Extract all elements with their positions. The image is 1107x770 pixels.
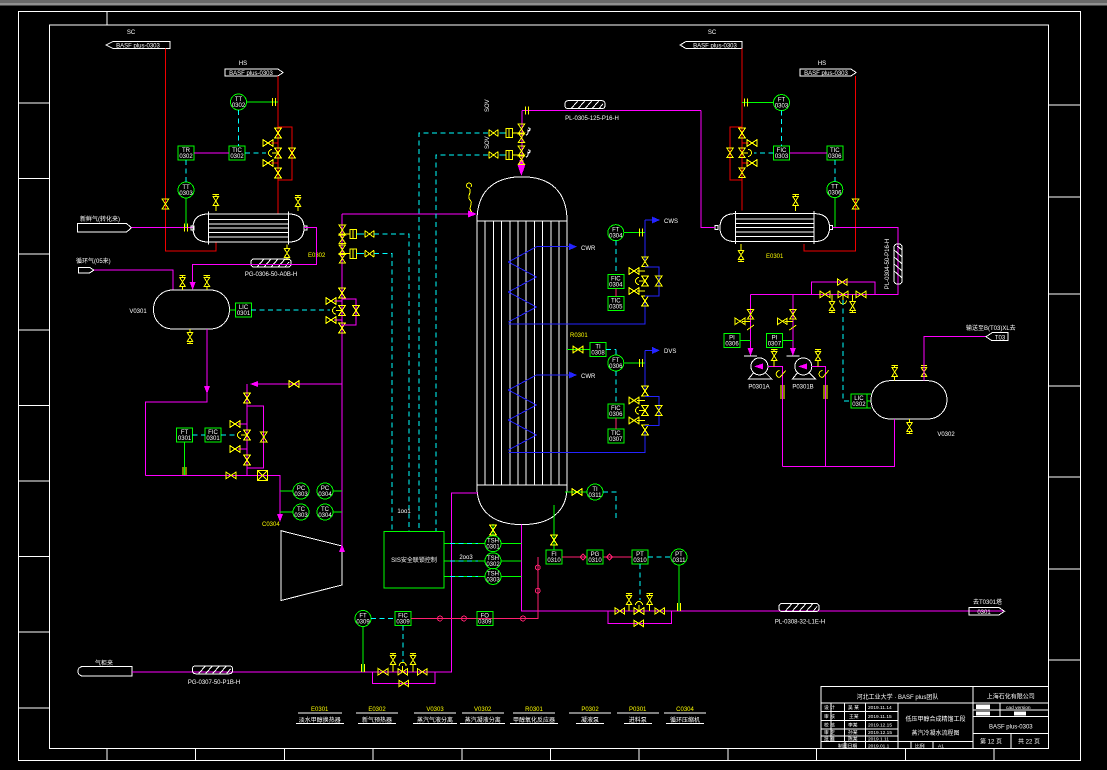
svg-text:T03: T03 bbox=[995, 336, 1006, 342]
product valve station bbox=[608, 594, 672, 627]
TSH sensor wires bbox=[444, 544, 521, 577]
svg-text:BASF plus-0303: BASF plus-0303 bbox=[116, 44, 160, 50]
legend E0302 bbox=[356, 707, 398, 724]
signal wire TIC0302 to valve bbox=[245, 152, 266, 154]
svg-text:V0303: V0303 bbox=[426, 707, 444, 713]
TSH0301 top tap valve bbox=[490, 524, 496, 536]
temperature box TI0308 bbox=[567, 343, 606, 357]
red steam line right SC bbox=[741, 49, 743, 211]
svg-text:0301: 0301 bbox=[977, 610, 991, 616]
signal wire FIC0303 to valve bbox=[754, 152, 774, 154]
reactor bottom head bbox=[477, 487, 567, 525]
flow transmitter FT0309 bbox=[355, 611, 371, 627]
pipe class tag PG-0307 bbox=[188, 666, 240, 686]
gauge box PG0310 bbox=[587, 550, 603, 564]
svg-text:E0301: E0301 bbox=[311, 707, 329, 713]
pipe class tag PL-0305 bbox=[565, 101, 619, 122]
revision rows text bbox=[824, 704, 944, 749]
svg-text:低压甲醇合成精馏工段: 低压甲醇合成精馏工段 bbox=[905, 715, 965, 723]
reactor top head bbox=[477, 177, 567, 221]
svg-text:V0301: V0301 bbox=[129, 309, 147, 315]
controller box TIC0306r bbox=[827, 146, 843, 160]
legend R0301 bbox=[510, 707, 558, 724]
svg-text:陈某: 陈某 bbox=[848, 736, 858, 743]
svg-text:HS: HS bbox=[239, 61, 247, 67]
svg-text:0303: 0303 bbox=[294, 492, 308, 498]
relief valve P0301B bbox=[815, 350, 821, 367]
signal line TT0302 to steam line bbox=[247, 101, 279, 103]
signal flag SC right bbox=[680, 30, 742, 50]
controller TIC0307 bbox=[608, 429, 624, 443]
svg-text:DVS: DVS bbox=[664, 349, 676, 355]
control valve station on HS steam line bbox=[263, 127, 295, 180]
signal wires upper cooling bbox=[615, 241, 617, 275]
signal dash PT0310 to valve bbox=[639, 564, 641, 600]
lower coil return pipe bbox=[508, 430, 645, 452]
title block frame bbox=[821, 686, 1048, 748]
svg-text:校 核: 校 核 bbox=[824, 722, 835, 729]
svg-text:2019.12.15: 2019.12.15 bbox=[868, 723, 892, 729]
transmitter TT0302 bbox=[231, 94, 247, 110]
valve on right HS line bbox=[852, 199, 858, 209]
svg-text:0304: 0304 bbox=[318, 492, 332, 498]
svg-text:0301: 0301 bbox=[486, 545, 500, 551]
signal dashes station B to SIS bbox=[374, 254, 392, 532]
svg-text:蒸汽气液分离: 蒸汽气液分离 bbox=[417, 716, 453, 724]
signal wire FIC to letdown valve bbox=[221, 434, 238, 436]
pump P0301B bbox=[786, 356, 815, 391]
svg-text:0303: 0303 bbox=[294, 513, 308, 519]
sensor line FT0301 bbox=[184, 442, 186, 475]
sensor line PT0311 bbox=[678, 566, 680, 612]
wire FIC-TIC right bbox=[790, 152, 827, 154]
svg-text:PL-0308-32-L1E-H: PL-0308-32-L1E-H bbox=[775, 620, 825, 626]
svg-text:审 核: 审 核 bbox=[824, 713, 835, 720]
svg-text:新气预热器: 新气预热器 bbox=[362, 716, 392, 724]
svg-text:A1: A1 bbox=[938, 743, 944, 749]
gauge PI0307 bbox=[766, 334, 782, 348]
svg-text:BASF plus-0303: BASF plus-0303 bbox=[693, 44, 737, 50]
controller FIC0309 bbox=[395, 612, 411, 626]
flow transmitter FT0306 bbox=[608, 355, 624, 371]
arrow compressor discharge bbox=[339, 544, 345, 552]
controller box TIC0302 bbox=[229, 146, 245, 160]
DVS supply lower bbox=[645, 350, 652, 391]
svg-text:1oo1: 1oo1 bbox=[397, 509, 411, 515]
svg-text:甲醇氧化反应器: 甲醇氧化反应器 bbox=[513, 716, 555, 724]
svg-text:批 准: 批 准 bbox=[824, 736, 835, 743]
svg-text:P0302: P0302 bbox=[581, 707, 599, 713]
frame zone ticks top bbox=[106, 12, 108, 26]
TSH sensors bbox=[485, 536, 501, 552]
svg-text:0310: 0310 bbox=[588, 558, 602, 564]
sensor line TT0303 to feed pipe bbox=[185, 198, 187, 228]
vent valves on V0302 bbox=[892, 366, 898, 381]
feed flag 新鲜气(转化来) bbox=[78, 215, 132, 232]
recycle flag 循环气(05来) bbox=[76, 257, 111, 273]
svg-text:0304: 0304 bbox=[609, 234, 623, 240]
svg-text:0306: 0306 bbox=[828, 154, 842, 160]
svg-text:0306: 0306 bbox=[609, 364, 623, 370]
svg-text:比例: 比例 bbox=[915, 742, 925, 749]
drain valve E0302 bbox=[284, 245, 290, 260]
gauge stub wires bbox=[280, 491, 342, 512]
svg-text:E0302: E0302 bbox=[308, 253, 326, 259]
svg-text:进料泵: 进料泵 bbox=[629, 716, 647, 724]
shutoff station A on riser bbox=[339, 225, 374, 243]
svg-text:SC: SC bbox=[708, 30, 717, 36]
drain valve V0301 bbox=[187, 329, 193, 344]
bottom temperature point TI0311 bbox=[565, 484, 603, 500]
svg-text:0302: 0302 bbox=[232, 103, 246, 109]
svg-text:2019.1.11: 2019.1.11 bbox=[868, 737, 889, 743]
feed pipe to E0302 bbox=[132, 227, 194, 229]
svg-text:P0301A: P0301A bbox=[748, 385, 769, 391]
frame zone ticks right bbox=[1049, 105, 1081, 660]
level controller LIC0302 bbox=[851, 394, 867, 408]
heat exchanger E0302 bbox=[191, 212, 307, 245]
compressor recycle main riser bbox=[341, 214, 343, 546]
svg-text:E0302: E0302 bbox=[368, 707, 386, 713]
svg-text:审 定: 审 定 bbox=[824, 729, 835, 736]
valve on crossover bbox=[289, 381, 299, 387]
sensor line FT0309 bbox=[362, 627, 364, 672]
svg-text:C0304: C0304 bbox=[262, 522, 280, 528]
svg-text:0306: 0306 bbox=[725, 342, 739, 348]
svg-text:气柜来: 气柜来 bbox=[95, 659, 113, 667]
svg-text:0306: 0306 bbox=[828, 191, 842, 197]
svg-text:0309: 0309 bbox=[356, 620, 370, 626]
svg-text:0301: 0301 bbox=[206, 436, 220, 442]
frame zone ticks bottom bbox=[107, 749, 994, 761]
signal flag HS left bbox=[225, 61, 283, 77]
relief valve P0301A bbox=[771, 350, 777, 367]
reactor shell bbox=[477, 221, 567, 487]
orifice on suction header bbox=[258, 470, 268, 480]
svg-text:CWR: CWR bbox=[581, 246, 596, 252]
gas feed pipe bbox=[132, 493, 478, 672]
pump P0301A suction bbox=[750, 294, 752, 352]
svg-text:新鲜气(转化来): 新鲜气(转化来) bbox=[80, 215, 120, 223]
legend E0301 bbox=[296, 707, 344, 724]
svg-text:2019.11.14: 2019.11.14 bbox=[868, 705, 892, 711]
svg-text:0307: 0307 bbox=[609, 437, 623, 443]
svg-text:0310: 0310 bbox=[547, 558, 561, 564]
arrow into V0301 bbox=[190, 282, 196, 290]
svg-text:BASF plus-0303: BASF plus-0303 bbox=[989, 725, 1033, 731]
sensor line FT0306 bbox=[624, 362, 645, 364]
svg-text:淡水甲醇换热器: 淡水甲醇换热器 bbox=[299, 716, 341, 724]
svg-text:E0301: E0301 bbox=[766, 254, 784, 260]
svg-text:0309: 0309 bbox=[478, 620, 492, 626]
signal dash station1 to SIS bbox=[419, 133, 488, 532]
V0301 bottom outlet line bbox=[145, 329, 207, 475]
reactor bottom outlet line bbox=[521, 525, 1003, 611]
legend P0301 bbox=[617, 707, 659, 724]
crossover pipe to letdown leg bbox=[251, 383, 342, 385]
cooling water valve station lower bbox=[629, 386, 662, 435]
pressure gauges PI row bbox=[293, 483, 309, 499]
gauge PI0306 bbox=[724, 334, 740, 348]
signal wire FT-FIC0309 bbox=[371, 618, 395, 620]
suction header to compressor bbox=[145, 475, 280, 520]
signal flag SC left bbox=[106, 30, 170, 50]
svg-text:0301: 0301 bbox=[178, 436, 192, 442]
vent valve E0301 bbox=[792, 195, 798, 212]
solenoid shutoff station 1 bbox=[489, 124, 530, 142]
svg-text:0306: 0306 bbox=[609, 412, 623, 418]
signal dash TI0308 bbox=[606, 350, 616, 356]
svg-text:PL-0304-50-P16-H: PL-0304-50-P16-H bbox=[885, 239, 891, 289]
svg-text:0310: 0310 bbox=[633, 558, 647, 564]
feed arrow into reactor top head bbox=[342, 213, 468, 215]
svg-text:0311: 0311 bbox=[589, 493, 603, 499]
letdown leg bbox=[246, 384, 248, 475]
signal wire TR-TIC bbox=[194, 152, 229, 154]
recycle pipe into V0301 bbox=[94, 270, 173, 290]
svg-text:BASF plus-0303: BASF plus-0303 bbox=[804, 71, 848, 77]
svg-text:制图日期: 制图日期 bbox=[838, 742, 857, 749]
svg-text:HS: HS bbox=[818, 61, 826, 67]
vessel V0302 bbox=[871, 381, 955, 438]
svg-text:上海石化有限公司: 上海石化有限公司 bbox=[987, 693, 1035, 701]
legend V0303 bbox=[413, 707, 457, 724]
svg-text:0304: 0304 bbox=[609, 283, 623, 289]
transmitter TT0306 bbox=[827, 182, 843, 198]
svg-text:循环气(05来): 循环气(05来) bbox=[76, 257, 111, 265]
flow transmitter FT0301 box bbox=[177, 428, 193, 442]
svg-text:0302: 0302 bbox=[230, 154, 244, 160]
signal dash to PT bubble bbox=[648, 556, 671, 558]
recorder box TR0302 bbox=[178, 146, 194, 160]
svg-text:0308: 0308 bbox=[591, 351, 605, 357]
letdown valve station on riser bbox=[326, 288, 359, 333]
svg-text:SOV: SOV bbox=[485, 99, 491, 112]
svg-text:王某: 王某 bbox=[849, 714, 859, 720]
signal wire TT0302-TIC0302 bbox=[238, 110, 240, 146]
arrow into compressor bbox=[277, 514, 283, 522]
svg-text:0311: 0311 bbox=[673, 558, 687, 564]
level controller LIC0301 bbox=[230, 303, 252, 317]
svg-text:CWS: CWS bbox=[664, 219, 678, 225]
sensor line FT0303 bbox=[742, 102, 774, 104]
svg-text:2oo3: 2oo3 bbox=[459, 555, 473, 561]
signal dash to LIC0302 bbox=[843, 300, 851, 401]
svg-text:C0304: C0304 bbox=[676, 707, 694, 713]
controller TIC0305 bbox=[608, 297, 624, 311]
svg-text:0305: 0305 bbox=[609, 305, 623, 311]
controller FIC0303 bbox=[774, 146, 790, 160]
logic box FO0309 bbox=[477, 612, 493, 626]
signal wire TR0302-TT0303 bbox=[185, 160, 187, 182]
destination flag 去T0301塔 bbox=[969, 598, 1005, 616]
svg-text:2019.11.15: 2019.11.15 bbox=[868, 714, 892, 720]
signal wire LIC0301 to valve bbox=[251, 309, 330, 311]
svg-text:0301: 0301 bbox=[237, 311, 251, 317]
tick on steam drum supply line bbox=[526, 107, 529, 115]
pipe class tag PG-0306 bbox=[245, 259, 297, 278]
gas feed valve station bbox=[373, 654, 435, 687]
svg-text:0309: 0309 bbox=[396, 620, 410, 626]
svg-text:吴 某: 吴 某 bbox=[848, 705, 859, 711]
svg-text:0304: 0304 bbox=[318, 513, 332, 519]
V0302 bottom outlet bbox=[783, 419, 895, 466]
red steam line from SC flag bbox=[165, 49, 215, 252]
CWS supply upper bbox=[645, 220, 652, 261]
sensor line TT0306 bbox=[834, 198, 836, 228]
red steam line right HS bbox=[804, 76, 856, 251]
svg-text:0303: 0303 bbox=[775, 104, 789, 110]
export flag 输送至B(T03)XL去 bbox=[966, 324, 1016, 342]
svg-text:孙某: 孙某 bbox=[848, 729, 858, 736]
interlock instrument row wire bbox=[562, 554, 632, 560]
heat exchanger E0301 bbox=[715, 211, 833, 244]
CWR outlet upper bbox=[536, 246, 569, 248]
svg-text:0303: 0303 bbox=[775, 154, 789, 160]
svg-text:PL-0305-125-P16-H: PL-0305-125-P16-H bbox=[565, 116, 619, 122]
svg-text:蒸汽冷凝水流程图: 蒸汽冷凝水流程图 bbox=[911, 729, 959, 737]
svg-text:BASF plus-0303: BASF plus-0303 bbox=[229, 71, 273, 77]
signal dash station2 to SIS bbox=[436, 155, 488, 532]
svg-text:2019.01.1: 2019.01.1 bbox=[868, 743, 890, 749]
shutoff station B on riser bbox=[339, 245, 374, 263]
svg-text:V0302: V0302 bbox=[474, 707, 492, 713]
drain valve E0301 bbox=[738, 244, 744, 262]
red steam line from HS flag bbox=[277, 76, 279, 214]
pump P0301B suction bbox=[792, 294, 794, 352]
signal dash TIC-TT right bbox=[834, 160, 836, 182]
svg-text:0302: 0302 bbox=[486, 562, 500, 568]
svg-text:cad version: cad version bbox=[1006, 705, 1031, 711]
svg-text:李某: 李某 bbox=[848, 722, 858, 729]
reactor tubes bbox=[485, 221, 559, 485]
vent valve E0302 right bbox=[295, 196, 301, 212]
cooling water valve station upper bbox=[629, 257, 662, 306]
signal wire FT-FIC bbox=[193, 434, 205, 436]
signal flag HS right bbox=[800, 61, 856, 77]
drain valve V0302 bbox=[906, 419, 912, 434]
svg-text:R0301: R0301 bbox=[570, 333, 588, 339]
svg-text:PG-0306-50-A0B-H: PG-0306-50-A0B-H bbox=[245, 272, 297, 278]
svg-text:第 12 页: 第 12 页 bbox=[980, 738, 1002, 746]
transmitter bubble PT0311 bbox=[671, 549, 687, 565]
svg-text:输送至B(T03)XL去: 输送至B(T03)XL去 bbox=[966, 324, 1016, 332]
svg-text:SOV: SOV bbox=[485, 136, 491, 149]
svg-text:SC: SC bbox=[127, 30, 136, 36]
arrow on V0301 outlet bbox=[204, 386, 210, 394]
lower cooling coil bbox=[508, 375, 536, 450]
svg-text:河北工业大学 · BASF plus团队: 河北工业大学 · BASF plus团队 bbox=[857, 693, 939, 701]
pipe class tag PL-0304 vertical bbox=[885, 239, 902, 289]
signal dash TI0311 bbox=[603, 492, 616, 520]
svg-text:0303: 0303 bbox=[486, 577, 500, 583]
svg-text:蒸汽凝液分离: 蒸汽凝液分离 bbox=[465, 716, 501, 724]
svg-text:0302: 0302 bbox=[179, 154, 193, 160]
steam drum supply line top bbox=[522, 110, 701, 112]
signal wire FT-FIC0303 bbox=[781, 111, 783, 146]
pipe class tag PL-0308 bbox=[775, 604, 825, 626]
svg-text:CWR: CWR bbox=[581, 374, 596, 380]
valve on SC steam line bbox=[162, 199, 168, 209]
SIS logic solver box bbox=[384, 532, 444, 588]
CWR outlet lower bbox=[536, 374, 569, 376]
steam condensate inlet pipe to E0301 bbox=[701, 111, 715, 228]
relief pictogram on top head bbox=[467, 183, 473, 212]
condensate outlet pipe E0301 bbox=[833, 228, 899, 295]
reactor bottom sample line bbox=[553, 505, 555, 550]
flow indicator FI0310 bbox=[546, 550, 562, 564]
svg-text:R0301: R0301 bbox=[525, 707, 543, 713]
svg-text:0307: 0307 bbox=[768, 342, 782, 348]
svg-text:P0301: P0301 bbox=[629, 707, 647, 713]
flow transmitter FT0304 bbox=[608, 225, 624, 241]
sensor line FT0304 bbox=[624, 232, 645, 234]
svg-text:2019.12.15: 2019.12.15 bbox=[868, 730, 892, 736]
upper coil return pipe bbox=[508, 301, 645, 324]
signal wires lower cooling bbox=[615, 371, 617, 404]
solenoid shutoff station 2 bbox=[489, 146, 530, 164]
compressor C0304 bbox=[262, 522, 342, 601]
suction header valves bbox=[812, 279, 875, 313]
svg-text:设 计: 设 计 bbox=[824, 704, 835, 711]
svg-text:凝液泵: 凝液泵 bbox=[581, 716, 599, 724]
gas feed flag 气柜来 bbox=[78, 659, 132, 676]
vessel V0301 bbox=[129, 290, 229, 329]
controller FIC0301 box bbox=[205, 428, 221, 442]
controller FIC0304 bbox=[608, 275, 624, 289]
signal wire FIC0309 to valve bbox=[402, 626, 404, 663]
control valve station right steam bbox=[727, 127, 757, 180]
vent valves on V0301 bbox=[179, 276, 185, 291]
legend C0304 bbox=[664, 707, 706, 724]
transmitter TT0303 bbox=[178, 182, 194, 198]
frame zone ticks left bbox=[19, 103, 50, 708]
signal dashes station A to SIS bbox=[374, 234, 409, 532]
svg-text:0302: 0302 bbox=[852, 402, 866, 408]
window top gray bar bbox=[0, 0, 1107, 3]
condensate line E0302 to V0301 bbox=[193, 228, 317, 283]
svg-text:去T0301塔: 去T0301塔 bbox=[973, 598, 1002, 606]
pump P0301A discharge bbox=[768, 366, 783, 466]
legend V0302 bbox=[460, 707, 505, 724]
vent valve E0302 left bbox=[213, 195, 219, 212]
drawing no cells bbox=[976, 705, 1031, 716]
letdown leg valve station bbox=[230, 393, 267, 468]
boiler water export pipe bbox=[924, 337, 986, 381]
svg-text:V0302: V0302 bbox=[937, 432, 955, 438]
pump suction header bbox=[751, 293, 875, 295]
pump P0301B discharge bbox=[812, 366, 826, 466]
interlock wire FIC0309 output bbox=[411, 557, 540, 621]
svg-text:循环压缩机: 循环压缩机 bbox=[670, 716, 700, 724]
arrow on crossover bbox=[250, 381, 258, 387]
controller FIC0306 bbox=[608, 404, 624, 418]
svg-text:P0301B: P0301B bbox=[792, 385, 813, 391]
upper cooling coil bbox=[508, 247, 536, 322]
pump P0301A bbox=[744, 356, 772, 391]
svg-text:0303: 0303 bbox=[179, 191, 193, 197]
svg-text:PG-0307-50-P1B-H: PG-0307-50-P1B-H bbox=[188, 680, 240, 686]
legend P0302 bbox=[569, 707, 611, 724]
svg-text:共 22 页: 共 22 页 bbox=[1018, 738, 1040, 746]
flow transmitter FT0303 bbox=[774, 95, 790, 111]
arrow into dome top bbox=[518, 160, 526, 176]
valve on suction header bbox=[226, 472, 236, 478]
riser to reactor dome bbox=[521, 111, 523, 164]
transmitter box PT0310 bbox=[632, 550, 648, 564]
svg-text:SIS安全联锁控制: SIS安全联锁控制 bbox=[391, 556, 437, 564]
